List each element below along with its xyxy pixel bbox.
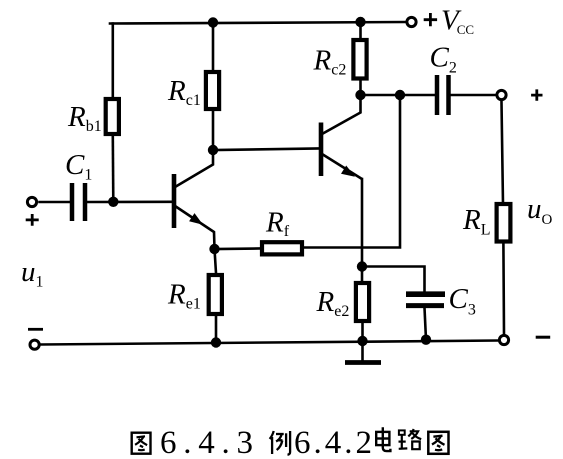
svg-text:6.4.3: 6.4.3 [160,425,253,459]
svg-text:6.4.2: 6.4.2 [294,425,372,459]
